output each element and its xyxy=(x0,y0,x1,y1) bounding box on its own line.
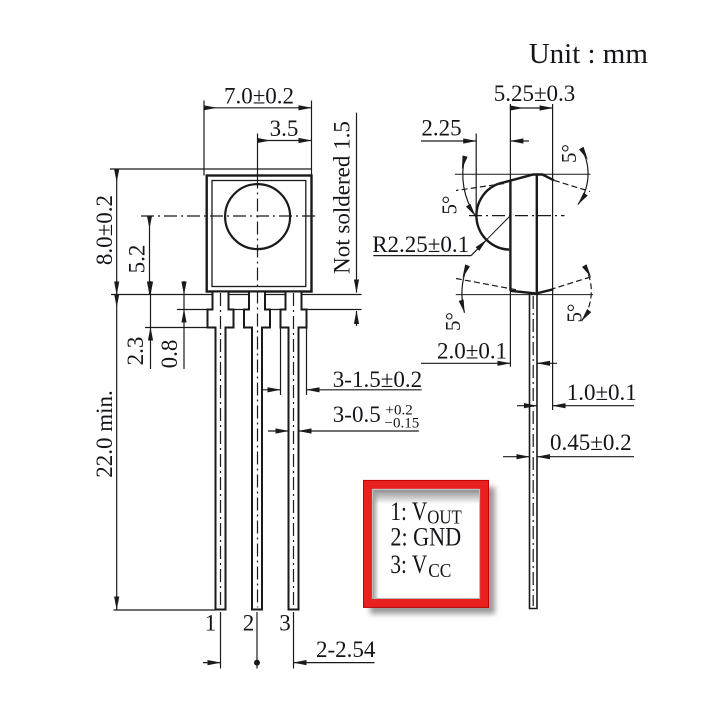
svg-text:2.3: 2.3 xyxy=(123,337,148,366)
svg-text:5.25±0.3: 5.25±0.3 xyxy=(494,81,576,106)
svg-text:Unit : mm: Unit : mm xyxy=(529,38,649,70)
svg-text:22.0 min.: 22.0 min. xyxy=(92,390,117,478)
svg-text:R2.25±0.1: R2.25±0.1 xyxy=(372,232,469,257)
svg-text:2: GND: 2: GND xyxy=(390,523,461,552)
svg-text:−0.15: −0.15 xyxy=(385,416,420,432)
svg-text:3: 3 xyxy=(279,611,291,636)
svg-text:5.2: 5.2 xyxy=(125,245,150,274)
svg-text:Not soldered 1.5: Not soldered 1.5 xyxy=(330,121,355,274)
svg-text:2.25: 2.25 xyxy=(421,116,461,141)
svg-text:0.8: 0.8 xyxy=(157,340,182,369)
svg-text:3-0.5: 3-0.5 xyxy=(333,402,381,427)
svg-text:0.45±0.2: 0.45±0.2 xyxy=(550,430,632,455)
svg-text:5°: 5° xyxy=(557,144,581,163)
svg-text:5°: 5° xyxy=(441,312,465,331)
svg-text:CC: CC xyxy=(428,561,451,582)
svg-text:7.0±0.2: 7.0±0.2 xyxy=(224,84,294,109)
svg-text:1: 1 xyxy=(205,611,217,636)
svg-text:2: 2 xyxy=(243,611,255,636)
svg-text:3: V: 3: V xyxy=(390,550,427,579)
svg-text:3.5: 3.5 xyxy=(270,116,299,141)
svg-text:3-1.5±0.2: 3-1.5±0.2 xyxy=(333,367,422,392)
svg-text:2.0±0.1: 2.0±0.1 xyxy=(437,339,507,364)
svg-text:8.0±0.2: 8.0±0.2 xyxy=(92,195,117,265)
svg-text:5°: 5° xyxy=(563,304,587,323)
svg-text:1.0±0.1: 1.0±0.1 xyxy=(567,380,637,405)
svg-text:5°: 5° xyxy=(438,196,462,215)
svg-text:2-2.54: 2-2.54 xyxy=(316,637,376,662)
